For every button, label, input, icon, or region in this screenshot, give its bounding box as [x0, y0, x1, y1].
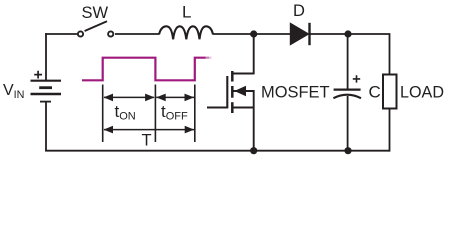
svg-text:VIN: VIN: [3, 82, 24, 101]
MOSFET channel segment source: [231, 102, 234, 113]
switch SW right contact circle: [108, 31, 113, 36]
diode D cathode bar: [308, 23, 310, 45]
MOSFET drain stub and wire up to node: [233, 34, 254, 74]
load resistor box: [383, 75, 397, 109]
capacitor C curved bottom plate: [333, 95, 361, 99]
svg-text:tON: tON: [115, 102, 136, 123]
junction dot source on bottom rail: [250, 147, 257, 154]
bottom rail wire: [45, 150, 389, 152]
dimension tick right (t_OFF end): [194, 85, 196, 143]
T dimension arrow: [104, 129, 194, 131]
MOSFET gate bar: [226, 76, 228, 108]
inductor L coil: [159, 26, 213, 39]
wire left vertical from corner down to battery top plate: [45, 33, 47, 80]
battery short plate upper: [39, 86, 52, 89]
svg-text:SW: SW: [82, 4, 109, 22]
junction node drain (dot): [250, 30, 257, 37]
diode D triangle: [290, 23, 308, 45]
svg-text:D: D: [293, 2, 305, 20]
wire from node down to capacitor: [347, 34, 349, 89]
battery V_IN plate long top: [31, 80, 62, 82]
wire waveform faded tail: [206, 57, 210, 59]
switch SW left contact circle: [78, 31, 83, 36]
wire battery bottom down to rail: [45, 102, 47, 151]
svg-text:L: L: [182, 2, 191, 21]
junction dot capacitor on bottom rail: [344, 147, 351, 154]
junction node cap top (dot): [344, 30, 351, 37]
MOSFET source stub and wire down to rail: [233, 90, 254, 151]
svg-text:MOSFET: MOSFET: [261, 84, 330, 102]
wire from inductor to diode: [213, 33, 291, 35]
dimension tick left (t_ON start): [102, 85, 104, 143]
wire from switch to inductor: [115, 33, 159, 35]
battery plate long lower: [31, 93, 62, 95]
t_OFF dimension arrow: [156, 96, 194, 98]
wire top-left horizontal from battery corner to switch: [45, 33, 77, 35]
capacitor C top plate: [334, 88, 361, 90]
PWM waveform (gate drive): [82, 58, 206, 81]
switch blade: [85, 21, 107, 31]
capacitor C plus sign: [353, 75, 360, 82]
wire from load bottom to rail: [389, 109, 391, 152]
wire from capacitor down to rail: [347, 96, 349, 151]
svg-text:tOFF: tOFF: [161, 102, 188, 123]
MOSFET body arrow line: [234, 90, 254, 92]
battery short plate lower: [40, 101, 51, 103]
MOSFET gate lead wire: [207, 107, 228, 109]
battery plus sign: [34, 71, 42, 79]
dimension tick middle (t_ON end / t_OFF start): [154, 85, 156, 143]
MOSFET channel segment body: [231, 86, 234, 98]
t_ON dimension arrow: [104, 96, 154, 98]
MOSFET body arrowhead pointing left: [234, 86, 246, 97]
svg-text:C: C: [369, 83, 381, 102]
svg-text:LOAD: LOAD: [400, 84, 444, 102]
svg-text:T: T: [142, 132, 152, 150]
wire from diode to top-right corner and down to load: [311, 33, 390, 74]
MOSFET channel segment drain: [231, 71, 234, 82]
